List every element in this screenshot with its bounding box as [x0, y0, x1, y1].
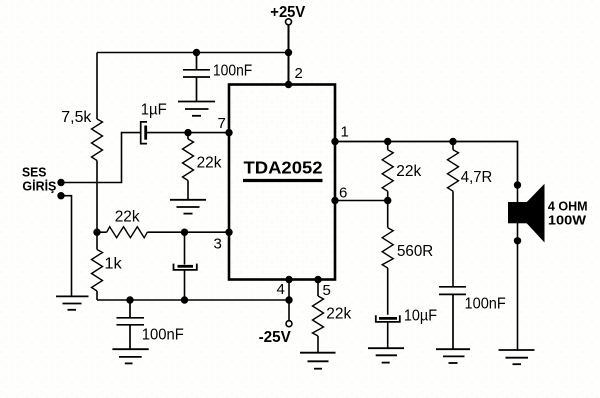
speaker terminal top	[514, 181, 521, 188]
junction R6 top	[384, 138, 391, 145]
input terminal 2	[57, 192, 64, 199]
svg-text:1: 1	[341, 124, 349, 141]
capacitor C1 1uF	[141, 122, 147, 144]
speaker terminal bottom	[514, 237, 521, 244]
svg-text:TDA2052: TDA2052	[244, 158, 323, 178]
junction C3 top	[181, 229, 188, 236]
junction pin 4 rail	[285, 296, 292, 303]
wire bottom rail	[97, 299, 289, 301]
pin 6 node	[331, 197, 338, 204]
wire input to C1	[61, 133, 141, 183]
svg-text:5: 5	[323, 282, 331, 299]
svg-text:SES: SES	[22, 166, 46, 180]
wire pin 1 rail to speaker	[335, 142, 518, 186]
speaker LS1	[508, 184, 545, 243]
wire +25V rail left	[97, 52, 289, 54]
resistor R6 22k pins 1-6	[382, 142, 393, 201]
svg-text:22k: 22k	[115, 208, 141, 225]
svg-text:4,7R: 4,7R	[461, 169, 492, 186]
svg-text:1k: 1k	[104, 256, 122, 273]
pin 7 node	[225, 129, 232, 136]
svg-text:100nF: 100nF	[142, 326, 184, 343]
label 4 OHM 100W	[548, 199, 588, 228]
svg-text:7: 7	[218, 115, 226, 132]
svg-text:10µF: 10µF	[404, 308, 437, 325]
label TDA2052	[243, 158, 323, 181]
junction C3 bottom	[181, 296, 188, 303]
+25V terminal	[286, 19, 292, 25]
node A junction	[93, 229, 100, 236]
label SES GIRIS	[22, 166, 56, 194]
svg-text:22k: 22k	[197, 155, 223, 172]
junction R8 top	[449, 138, 456, 145]
svg-text:22k: 22k	[326, 306, 352, 323]
resistor R5 22k pin 5 to ground	[313, 280, 324, 353]
svg-text:100W: 100W	[548, 213, 587, 228]
svg-text:100nF: 100nF	[465, 295, 506, 312]
resistor R8 4,7R zobel	[448, 142, 459, 287]
pin 1 node	[331, 138, 338, 145]
junction C4 top	[126, 296, 133, 303]
ground under R5	[300, 353, 336, 369]
svg-text:-25V: -25V	[259, 329, 292, 346]
pin 5 node	[314, 276, 321, 283]
input terminal 1	[57, 179, 64, 186]
-25V terminal	[286, 321, 292, 327]
wire speaker to ground	[517, 185, 519, 350]
resistor R1 7,5k	[92, 119, 103, 161]
svg-text:560R: 560R	[397, 243, 433, 260]
svg-text:22k: 22k	[396, 163, 422, 180]
wire input 2 to ground	[61, 196, 72, 296]
wire +25V terminal to pin 2	[288, 25, 290, 85]
ground under R2	[170, 200, 206, 214]
ground under C6	[436, 349, 470, 363]
capacitor C4 100nF bottom left	[117, 300, 145, 349]
junction R2 top	[184, 129, 191, 136]
ground input	[56, 296, 89, 309]
pin 3 node	[225, 229, 232, 236]
svg-text:6: 6	[339, 185, 347, 202]
svg-text:4: 4	[277, 281, 285, 298]
wire rail down to R1	[96, 53, 98, 120]
svg-text:GİRİŞ: GİRİŞ	[22, 179, 56, 194]
junction +25V rail	[285, 49, 292, 56]
ground under C2	[178, 102, 215, 116]
wire R3 to pin 3	[147, 231, 229, 233]
capacitor C5 10uF electrolytic	[376, 315, 400, 348]
op-amp IC U1 TDA2052 body	[229, 85, 335, 280]
pin 2 node	[285, 81, 292, 88]
capacitor C3 electrolytic at pin 3	[174, 232, 197, 300]
svg-text:7,5k: 7,5k	[61, 109, 92, 126]
resistor R2 22k pin 7 to ground	[183, 133, 194, 200]
svg-text:1µF: 1µF	[141, 102, 167, 119]
svg-text:3: 3	[214, 236, 222, 253]
wire pin 6	[335, 200, 388, 202]
pin 4 node	[285, 276, 292, 283]
resistor R4 1k	[92, 232, 103, 300]
junction pin 6 / R7	[384, 197, 391, 204]
capacitor C6 100nF zobel	[439, 287, 466, 349]
ground under speaker	[499, 350, 535, 364]
ground under C4	[112, 349, 148, 363]
resistor R7 560R	[382, 201, 393, 315]
wire C1 to pin 7	[147, 132, 229, 134]
capacitor C2 100nF supply decoupling	[183, 53, 210, 102]
svg-text:4 OHM: 4 OHM	[548, 199, 588, 214]
ground under C5	[368, 348, 404, 362]
junction C2 top	[193, 49, 200, 56]
resistor R3 22k feedback	[97, 227, 147, 238]
svg-text:2: 2	[295, 65, 303, 82]
wire R1 to node A	[96, 161, 98, 233]
wire pin 4 to -25V terminal	[288, 280, 290, 321]
svg-text:100nF: 100nF	[213, 63, 253, 80]
